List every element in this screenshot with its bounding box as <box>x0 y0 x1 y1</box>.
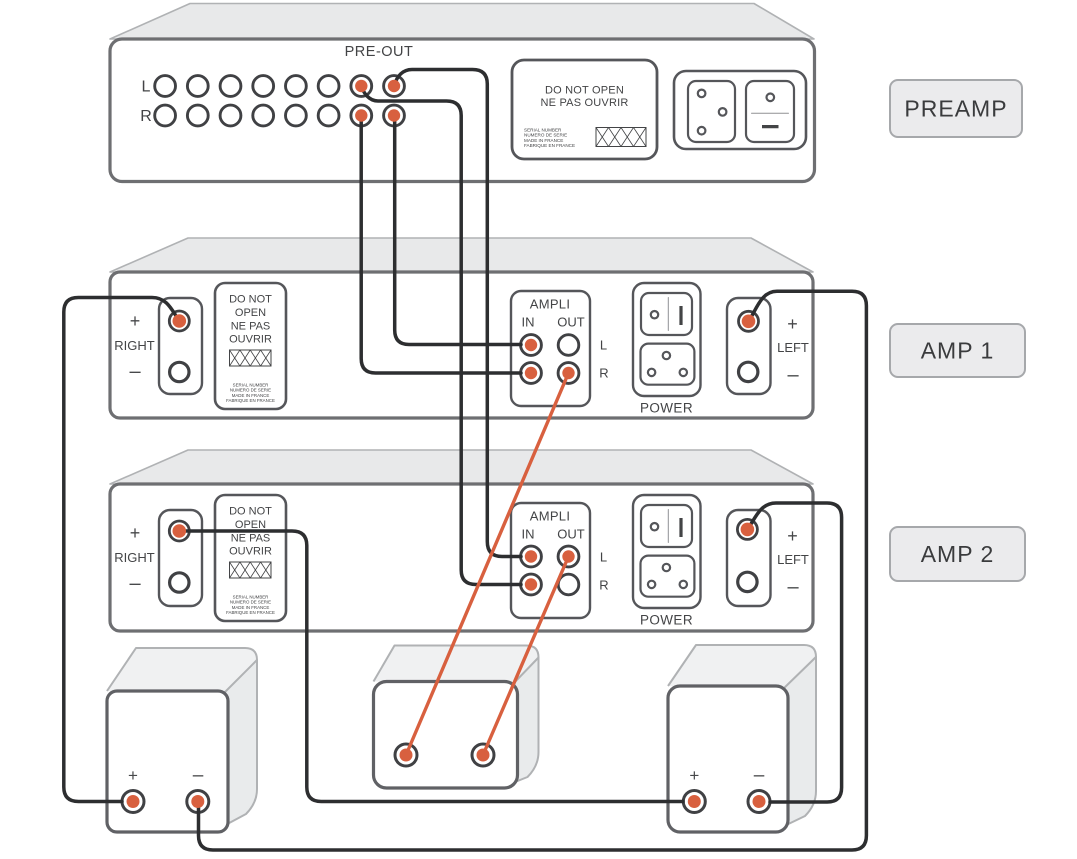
svg-text:FABRIQUE EN FRANCE: FABRIQUE EN FRANCE <box>226 398 275 403</box>
svg-text:OUVRIR: OUVRIR <box>229 334 272 346</box>
svg-text:+: + <box>130 523 141 543</box>
svg-text:OPEN: OPEN <box>235 307 266 319</box>
svg-text:+: + <box>787 314 798 334</box>
svg-text:NE PAS: NE PAS <box>231 321 271 333</box>
svg-text:OUT: OUT <box>557 315 585 330</box>
svg-text:FABRIQUE EN FRANCE: FABRIQUE EN FRANCE <box>524 143 575 148</box>
svg-text:PRE-OUT: PRE-OUT <box>345 44 414 60</box>
svg-text:L: L <box>600 338 607 353</box>
svg-text:L: L <box>142 79 151 96</box>
svg-text:IN: IN <box>522 527 535 542</box>
svg-text:FABRIQUE EN FRANCE: FABRIQUE EN FRANCE <box>226 610 275 615</box>
svg-text:POWER: POWER <box>640 613 693 628</box>
svg-text:R: R <box>599 578 608 593</box>
svg-text:NE PAS: NE PAS <box>231 533 271 545</box>
svg-text:–: – <box>787 576 799 598</box>
svg-text:OUVRIR: OUVRIR <box>229 546 272 558</box>
svg-text:+: + <box>689 766 699 785</box>
svg-text:NE PAS OUVRIR: NE PAS OUVRIR <box>541 97 629 109</box>
svg-text:+: + <box>130 311 141 331</box>
svg-text:DO NOT: DO NOT <box>229 506 272 518</box>
svg-text:OUT: OUT <box>557 527 585 542</box>
svg-text:–: – <box>129 573 141 595</box>
svg-text:DO NOT: DO NOT <box>229 294 272 306</box>
svg-text:R: R <box>599 366 608 381</box>
svg-text:LEFT: LEFT <box>777 552 809 567</box>
svg-text:+: + <box>128 766 138 785</box>
svg-text:L: L <box>600 550 607 565</box>
svg-text:+: + <box>787 526 798 546</box>
svg-text:POWER: POWER <box>640 401 693 416</box>
svg-text:AMP 2: AMP 2 <box>921 541 995 567</box>
svg-text:IN: IN <box>522 315 535 330</box>
svg-text:OPEN: OPEN <box>235 519 266 531</box>
svg-text:DO NOT OPEN: DO NOT OPEN <box>545 85 624 97</box>
svg-text:RIGHT: RIGHT <box>114 550 155 565</box>
svg-text:AMPLI: AMPLI <box>530 297 571 312</box>
svg-text:LEFT: LEFT <box>777 340 809 355</box>
svg-text:R: R <box>140 108 152 125</box>
svg-text:RIGHT: RIGHT <box>114 338 155 353</box>
svg-text:–: – <box>787 364 799 386</box>
svg-text:PREAMP: PREAMP <box>904 96 1007 122</box>
svg-text:–: – <box>129 361 141 383</box>
svg-text:–: – <box>754 765 765 786</box>
svg-text:–: – <box>193 765 204 786</box>
svg-text:AMPLI: AMPLI <box>530 509 571 524</box>
svg-text:AMP 1: AMP 1 <box>921 338 995 364</box>
